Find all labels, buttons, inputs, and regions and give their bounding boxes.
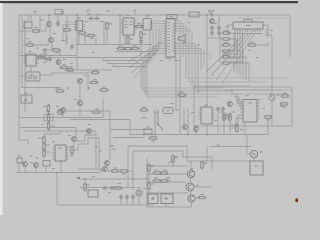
wire chain bottom <box>140 44 142 58</box>
wire left vertical V2 <box>21 15 23 88</box>
resistor R44 <box>66 66 75 71</box>
wire Q7 chain <box>79 85 81 100</box>
window left light edge <box>0 3 3 215</box>
wire row y50 <box>48 49 53 51</box>
wire R2 to Q2 <box>35 42 48 45</box>
motor M1 <box>250 150 262 157</box>
capacitor C3 <box>88 14 93 20</box>
transistor Q4 <box>56 60 61 65</box>
wire y187 row <box>80 187 135 189</box>
wire x96 vertical <box>95 131 97 168</box>
driver box U13 <box>88 190 98 197</box>
op-amp U3 <box>121 15 137 35</box>
power flag VCC6 <box>209 11 214 16</box>
wire Q12 to R27 <box>108 170 111 172</box>
wire M1 feed <box>247 147 250 155</box>
decoupling box X1 <box>189 12 199 17</box>
wire x57 drop <box>56 173 58 206</box>
transistor Q7 <box>78 79 83 84</box>
wire fan drop f2 <box>145 55 198 94</box>
resistor R31 <box>148 182 154 191</box>
bus route B <box>133 151 212 170</box>
wire long h127 <box>20 128 76 139</box>
resistor R40 <box>264 116 273 121</box>
power flag VCC4 <box>106 10 109 11</box>
transistor Q9 <box>72 137 77 142</box>
capacitor C4 <box>95 14 100 20</box>
wire x245 drop <box>244 122 246 135</box>
label net1 <box>216 144 219 145</box>
resistor R27 <box>111 167 120 172</box>
label RN1 <box>40 19 43 20</box>
wire left diag d3 <box>131 52 158 74</box>
wire U6 diag e2 <box>211 34 248 76</box>
transistor Q25 <box>183 125 188 130</box>
resistor R26 <box>29 155 38 158</box>
scattered value labels <box>30 23 283 189</box>
wire staircase extra <box>195 87 292 90</box>
capacitor C28 <box>56 22 60 27</box>
power flag VCC1 <box>33 11 36 15</box>
resistor R20 <box>71 146 77 155</box>
wire J1 to bus <box>27 15 29 22</box>
bus route D <box>132 151 134 190</box>
resistor R42 <box>222 113 231 118</box>
wire drops to bus <box>19 161 61 173</box>
wire block inner y90 <box>225 89 282 91</box>
optocoupler U15 <box>161 194 173 204</box>
resistor R36 <box>153 177 162 182</box>
wire wrap w1 <box>232 91 241 103</box>
transistor Q22 <box>87 129 92 134</box>
wire A lower bus <box>19 55 77 57</box>
wire x272 long <box>271 35 273 95</box>
wire drops to rail <box>149 173 192 208</box>
resistor R33 <box>201 161 207 170</box>
resistor R28 <box>120 170 129 175</box>
switch SW1 <box>155 110 163 130</box>
regulator U7 <box>24 51 39 66</box>
wire U8 to Q12 <box>78 168 103 170</box>
resistor R54 <box>106 22 112 31</box>
wire y118 link <box>140 117 148 119</box>
wire y166 <box>147 165 188 167</box>
wire right border vertical <box>289 15 291 58</box>
wire x184 <box>183 108 185 125</box>
bus route E mid bus <box>130 119 268 135</box>
resistor R61 <box>149 137 158 142</box>
wire R32 drop <box>172 163 174 167</box>
transistor Q12 <box>103 167 108 172</box>
wire y45 row <box>257 42 269 45</box>
wire bundle h63 <box>108 61 143 64</box>
interface block boundary <box>194 87 292 126</box>
resistor R25 <box>43 149 50 158</box>
wire bottom bus y205 <box>57 204 152 206</box>
power flag VCC3 <box>86 10 89 15</box>
oscillator U4 <box>143 15 152 30</box>
wire x188 <box>187 108 189 135</box>
resistor R5 <box>117 45 126 49</box>
resistor R32 <box>172 155 178 164</box>
wire bundle h66 <box>113 64 145 67</box>
resistor R22 <box>110 145 115 149</box>
wire U6 diag e3 <box>216 34 251 80</box>
wire x77 below bus <box>76 58 78 71</box>
capacitor C8 <box>217 26 221 31</box>
wire Q3 top <box>211 15 213 18</box>
transistor Q24 <box>61 108 66 113</box>
connector J1 <box>24 22 32 28</box>
enclosure box outer edge <box>70 119 130 121</box>
resistor R9 <box>222 38 231 40</box>
enclosure box right edge <box>19 98 103 118</box>
wire U8 staircase s1 <box>69 135 97 147</box>
diode D2 <box>98 150 101 151</box>
wire rstack left rail <box>219 33 221 63</box>
wire y70 link <box>64 69 112 71</box>
wire diag j1 <box>168 156 177 164</box>
wire Q15 out <box>194 186 212 188</box>
wire rstack drops <box>224 122 230 135</box>
supervisor box K2 <box>21 92 32 103</box>
resistor R35 <box>160 169 169 174</box>
wire U6 left lead <box>228 25 233 34</box>
wire K1 left <box>19 75 26 77</box>
wire y111 link <box>63 110 110 112</box>
input box J2 <box>17 155 22 163</box>
power flag VCC2 <box>60 11 63 15</box>
transistor Q19 <box>194 127 199 132</box>
transistor Q17 <box>228 102 233 107</box>
diode D3 <box>175 109 178 110</box>
wire x110 vertical <box>109 111 111 160</box>
op-amp U2 <box>63 17 85 44</box>
capacitor C18 <box>110 186 115 190</box>
diode D6 <box>47 122 54 131</box>
wire Q riser <box>190 161 192 170</box>
wire x247 riser <box>246 135 248 147</box>
transistor Q2 <box>49 38 54 43</box>
wire right nest <box>178 21 288 94</box>
wire y174 <box>147 173 187 175</box>
wire bus y44.5 <box>75 44 152 46</box>
resistor R12 <box>222 54 231 58</box>
wire left vertical V1 <box>18 15 20 140</box>
capacitor C2 <box>70 45 74 50</box>
capacitor C1 <box>43 48 48 53</box>
wire x88 vertical <box>87 70 89 91</box>
wire x99 vertical <box>98 138 100 168</box>
resistor R52 <box>236 124 238 133</box>
resistor R16 <box>60 64 69 69</box>
wire x180 long <box>174 61 180 135</box>
resistor R6 <box>124 47 133 49</box>
resistor R17 <box>100 86 109 91</box>
transistor Q1 <box>47 22 52 27</box>
resistor R39 <box>281 92 290 97</box>
comparator U10 <box>199 104 215 124</box>
wire wrap w4 <box>236 100 241 109</box>
wire U6 right lead <box>263 25 268 38</box>
transistor Q16 <box>188 195 195 202</box>
wire fan drop f1 <box>143 58 232 92</box>
wire Q1-Q2 <box>49 27 51 37</box>
wire R4 drop <box>66 15 68 26</box>
resistor R60 <box>114 187 123 189</box>
wire x219 top <box>218 15 220 25</box>
resistor R59 <box>131 45 140 49</box>
wire wrap w6 <box>230 118 241 128</box>
wire R4 down <box>66 35 68 45</box>
resistor R55 <box>78 32 87 37</box>
wire U3 drop2 <box>124 35 126 45</box>
capacitor C5 <box>139 39 143 44</box>
resistor R24 <box>43 143 50 152</box>
resistor R8 <box>222 30 231 34</box>
label RN2 <box>56 21 59 22</box>
wire long h131 <box>23 130 96 132</box>
wire M1 to sensor <box>253 158 255 161</box>
wire x120 <box>119 15 121 45</box>
diode D1 <box>94 146 97 147</box>
wire y137 right link <box>113 134 144 138</box>
interface U9 <box>241 100 260 123</box>
optocoupler U14 <box>148 194 158 204</box>
resistor R38 <box>198 194 207 199</box>
transistor Q13 <box>136 190 142 196</box>
transistor Q21 <box>57 109 62 114</box>
wire y179 <box>80 178 147 180</box>
node ring N1 <box>166 177 170 181</box>
resistor R51 <box>229 111 235 121</box>
wire Q14-Q15 <box>190 178 192 183</box>
resistor R47 <box>91 69 100 74</box>
resistor R14 <box>248 41 257 46</box>
capacitor C26 <box>216 107 220 112</box>
wire C row links <box>85 22 105 45</box>
wire y129 right link <box>110 129 152 131</box>
wire U7 to K1 <box>30 66 32 72</box>
wire R1 left <box>19 30 31 32</box>
diode D5 <box>47 113 49 122</box>
bus route A <box>128 146 250 161</box>
buzzer LS1 <box>178 35 185 43</box>
inner frame line top-right <box>238 17 290 19</box>
wire bridge loop <box>44 114 53 121</box>
wire top bus <box>19 14 290 16</box>
transistor Q15 <box>186 183 194 191</box>
resistor R58 <box>127 36 133 45</box>
wire y172 bus <box>17 172 101 174</box>
wire y182 <box>147 181 186 183</box>
wire Q23 down <box>79 107 81 118</box>
power flag VCC5 <box>133 10 136 15</box>
resistor R2 <box>26 41 35 46</box>
resistor R48 <box>92 108 101 113</box>
capacitor C11 <box>48 55 52 62</box>
wire left rail x147 <box>146 158 148 207</box>
resistor R37 <box>160 180 169 182</box>
resistor R4 <box>63 26 72 31</box>
wire drops B <box>79 30 107 45</box>
resistor R23 <box>38 136 45 145</box>
wire bus y51.5 <box>115 51 152 53</box>
resistor R13 <box>222 62 231 64</box>
wire fan drop f4 <box>147 61 218 98</box>
transistor Q14 <box>187 170 194 177</box>
capacitor C10 <box>44 54 48 61</box>
resistor R50 <box>219 111 225 121</box>
wire R33 top <box>201 161 203 162</box>
wire x218 drop <box>217 112 219 135</box>
wire R2 left <box>22 44 25 46</box>
wire U8 top link <box>44 131 60 136</box>
wire x207 long <box>206 15 208 107</box>
wire cap drops <box>85 179 139 205</box>
wire left nest <box>147 21 163 67</box>
shift register U6 <box>233 20 263 30</box>
wire wrap w5 <box>231 115 241 125</box>
wire y124.5 <box>41 124 44 126</box>
transistor Q3 <box>210 19 215 24</box>
resistor R34 <box>153 169 162 174</box>
wire rstack right steps <box>231 33 250 82</box>
resistor R1 <box>32 27 41 32</box>
transistor Q23 <box>78 101 83 106</box>
U5 right pins <box>175 21 178 54</box>
sensor S1 <box>250 161 263 175</box>
capacitor C19 <box>119 195 123 200</box>
gate box A1 <box>43 161 50 167</box>
timer U8 <box>53 145 69 161</box>
resistor R10 <box>222 42 231 46</box>
wire Q18 drop <box>271 101 273 126</box>
wire U6 staircase left <box>222 32 243 62</box>
wire y193 <box>147 192 188 194</box>
transistor Q20 <box>105 161 110 166</box>
wire left diag d4 <box>134 48 159 78</box>
capacitor C20 <box>125 195 129 200</box>
wire y87 bus <box>22 87 60 89</box>
resistor R53 <box>178 91 187 96</box>
wire U6 diag e1 <box>206 34 245 72</box>
wire IC bottom stub <box>169 57 171 62</box>
wire bundle h57 <box>40 57 152 59</box>
wire K1 out right <box>40 73 88 75</box>
resistor R41 <box>140 106 149 111</box>
wire left diag d2 <box>129 48 156 68</box>
resistor R57 <box>135 23 144 28</box>
wire Q24 down <box>62 113 64 118</box>
resistor R3 <box>52 49 61 54</box>
resistor R29 <box>84 183 90 192</box>
capacitor C21 <box>131 195 135 200</box>
cursor mark <box>295 198 299 202</box>
U5 left pins <box>163 21 166 54</box>
wire U6 top stub <box>247 15 249 20</box>
wire U8 staircase s2 <box>69 138 100 150</box>
wire U3 down <box>127 35 129 37</box>
capacitor C17 <box>103 186 108 190</box>
capacitor C9 <box>217 31 221 36</box>
wire y146.5 <box>210 146 251 148</box>
wire x207 riser <box>206 147 208 162</box>
microcontroller U5 <box>166 15 177 58</box>
capacitor C6 <box>210 26 214 31</box>
transistor Q18 <box>269 94 280 100</box>
wire fan drop f3 <box>141 67 223 89</box>
capacitor C27 <box>221 107 225 112</box>
wire A extra stubs <box>25 15 60 56</box>
wire R1 to Q1 <box>41 26 46 31</box>
resistor R7 <box>140 31 146 40</box>
resistor R46 <box>90 79 99 84</box>
window top dark edge <box>0 0 298 1</box>
capacitor C7 <box>210 31 214 36</box>
resistor R30 <box>148 164 154 173</box>
wire V1 elbow <box>19 140 28 144</box>
U6 bottom pins <box>235 29 260 32</box>
wire left vertical V3 <box>24 20 26 112</box>
wire cap row join <box>207 37 222 39</box>
wire Q16 to R38 <box>195 197 197 199</box>
resistor R11 <box>222 50 231 52</box>
relay K1 <box>26 72 40 81</box>
resistor R56 <box>87 34 96 39</box>
wire U6 diag e4 <box>222 34 254 84</box>
resistor R49 <box>280 103 289 108</box>
wire wrap w3 <box>234 97 241 106</box>
wire x272 top hook <box>266 29 272 35</box>
wire R28 right <box>129 171 134 179</box>
bus route C <box>127 146 129 188</box>
filter box F1 <box>144 126 152 134</box>
transistor Q11 <box>23 162 28 167</box>
resistor R45 <box>56 87 65 92</box>
diode D4 <box>43 104 50 113</box>
wire U4 down chain <box>140 30 142 32</box>
resistor R15 <box>37 54 46 59</box>
wire x176 long <box>170 58 176 111</box>
wire Q2 emitter down <box>51 43 53 50</box>
net stub box NB1 <box>55 10 63 15</box>
wire Q1 collector <box>48 15 50 21</box>
wire row drops <box>144 112 223 135</box>
transistor Q10 <box>34 163 39 168</box>
scattered value labels 2 <box>24 22 273 193</box>
wire left diag d1 <box>128 45 156 62</box>
wire bottom rail y207 <box>147 206 191 208</box>
jack J3 <box>163 108 173 114</box>
wire bundle h60 <box>103 58 145 61</box>
wire Q15-Q16 <box>190 191 192 195</box>
wire A vertical x77 <box>76 15 78 58</box>
pin number smudge row <box>234 33 262 34</box>
net arrow IN1 <box>76 177 80 180</box>
